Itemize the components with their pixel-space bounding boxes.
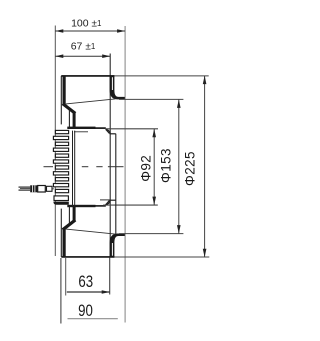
svg-text:Φ92: Φ92	[138, 155, 153, 182]
svg-text:63: 63	[78, 273, 93, 292]
svg-text:90: 90	[78, 302, 93, 321]
svg-text:Φ225: Φ225	[182, 151, 197, 186]
svg-text:Φ153: Φ153	[158, 148, 173, 183]
svg-text:67 ±1: 67 ±1	[71, 41, 96, 53]
svg-text:100 ±1: 100 ±1	[71, 18, 102, 30]
